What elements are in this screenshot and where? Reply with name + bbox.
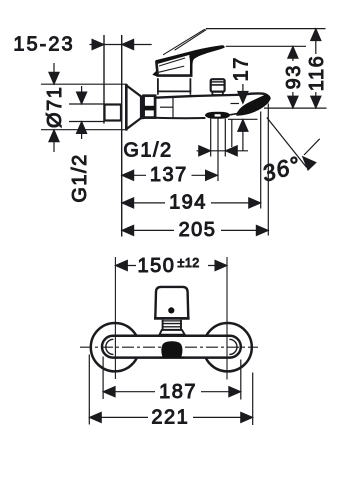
36 degree slope line — [267, 118, 307, 168]
dimension 15-23 arrow right — [92, 39, 104, 49]
body bottom edge — [155, 117, 205, 119]
dim Ø71 bottom extension line — [41, 129, 127, 131]
extension line aerator center — [217, 118, 219, 181]
reference line spout outlet — [264, 107, 327, 109]
dim 221 arrows — [89, 412, 252, 422]
centerline vertical right — [226, 257, 228, 380]
dim 187 line — [103, 391, 241, 393]
dimension 15-23 arrow left — [122, 39, 134, 49]
svg-text:150: 150 — [137, 255, 175, 277]
reference tick 17 top — [231, 103, 240, 105]
dim 187 ext line left — [102, 357, 104, 400]
cartridge block sides — [158, 91, 191, 94]
svg-text:93: 93 — [283, 64, 305, 89]
body collar line — [172, 98, 174, 118]
reference line top (handle raised) — [206, 28, 326, 30]
dim 187 arrows — [103, 387, 241, 397]
escutcheon collar — [141, 96, 143, 118]
dim G1/2 wall top line — [69, 103, 104, 105]
lever raised position line1 — [163, 29, 205, 55]
dim 116 shaft — [315, 40, 317, 96]
underside curve to spout — [230, 113, 240, 115]
body top edge — [155, 95, 237, 98]
escutcheon flange — [125, 84, 128, 131]
dim 93 top arrow — [288, 46, 298, 58]
union nut — [144, 96, 156, 118]
wall line right (finished wall max) — [121, 35, 123, 237]
escutcheon circle left — [91, 323, 139, 371]
dim G1/2 outlet arrow right — [199, 146, 211, 156]
escutcheon cone top — [126, 85, 141, 97]
dim G1/2 wall bottom line — [69, 121, 104, 123]
dim 137 line — [122, 174, 218, 176]
body middle tick — [160, 106, 173, 108]
lever limiter notch — [152, 70, 157, 76]
dim G1/2 outlet arrow left — [225, 146, 237, 156]
lever raised position line2 — [175, 30, 207, 51]
lever blade — [156, 46, 224, 77]
extension line aerator right — [224, 118, 226, 156]
svg-text:17: 17 — [230, 56, 252, 81]
svg-text:194: 194 — [169, 192, 207, 214]
aerator (mousseur) — [205, 112, 229, 118]
svg-text:15-23: 15-23 — [13, 33, 74, 55]
handle neck front — [163, 320, 181, 330]
lever base box — [156, 61, 192, 76]
spout tip (beak) top edge — [237, 93, 270, 99]
extension line spout end — [267, 104, 269, 236]
dimension 15-23 line — [90, 44, 152, 46]
dim 221 ext line right — [252, 373, 254, 426]
extension line aerator left — [210, 118, 212, 156]
lever base inner line2 — [159, 58, 185, 66]
diverter knob — [211, 79, 225, 95]
dim 150 arrows — [115, 260, 227, 270]
wall line left (finished wall min) — [103, 35, 105, 124]
svg-text:36°: 36° — [259, 151, 304, 187]
dim 194 arrows — [122, 198, 261, 208]
dim 116 top arrow — [311, 29, 321, 41]
cartridge block — [158, 78, 191, 91]
dim 17 top arrow — [238, 84, 248, 103]
dim 93 bottom arrow — [288, 96, 298, 108]
escutcheon cone bottom — [126, 118, 141, 130]
svg-text:205: 205 — [179, 219, 217, 241]
dim 137 arrows — [122, 170, 218, 180]
handle front outer — [155, 287, 188, 318]
extension line spout underside — [231, 119, 233, 147]
handle front bottom band — [154, 317, 190, 320]
svg-text:221: 221 — [151, 406, 189, 428]
reference line spout bottom — [228, 118, 258, 120]
centerline horizontal — [80, 346, 258, 348]
svg-text:G1/2: G1/2 — [123, 140, 172, 162]
dim 187 ext line right — [240, 360, 242, 400]
dim 221 ext line left — [88, 355, 90, 425]
body stadium inner cap right — [229, 339, 237, 354]
lever base inner line1 — [158, 66, 184, 72]
reference line lever tip — [226, 45, 306, 47]
dim G1/2 wall bottom arrow — [76, 122, 86, 140]
spout tip (beak) crescent — [237, 95, 270, 116]
svg-text:137: 137 — [150, 164, 188, 186]
escutcheon circle right — [203, 323, 251, 371]
dim 150 line — [115, 265, 227, 267]
dim Ø71 top extension line — [41, 83, 127, 85]
dim 205 line — [122, 229, 269, 231]
handle skirt front — [160, 330, 185, 335]
dim Ø71 bottom arrow — [49, 130, 59, 152]
dim 221 line — [89, 416, 252, 418]
wall connection stub — [105, 105, 122, 121]
dim G1/2 wall top arrow — [76, 86, 86, 104]
centerline vertical left — [114, 257, 116, 379]
extension line spout bottom tip — [260, 112, 262, 209]
dim 194 line — [122, 202, 261, 204]
svg-text:±12: ±12 — [178, 256, 200, 270]
svg-text:187: 187 — [159, 381, 197, 403]
body stadium outer — [102, 336, 241, 358]
dim G1/2 outlet line — [197, 150, 249, 152]
dim 93 shaft — [292, 58, 294, 96]
svg-text:G1/2: G1/2 — [69, 153, 91, 202]
dim Ø71 top arrow — [49, 63, 59, 84]
svg-text:116: 116 — [306, 55, 328, 91]
dim 116 bottom arrow — [311, 96, 321, 108]
diverter knob front (dark) — [160, 341, 185, 358]
handle indicator dot — [168, 307, 174, 313]
dim 205 arrows — [122, 225, 269, 235]
svg-text:Ø71: Ø71 — [44, 86, 66, 128]
36 degree leader arrow — [303, 139, 320, 170]
dim 17 bottom arrow — [238, 119, 248, 150]
body stadium inner cap left — [106, 339, 114, 354]
